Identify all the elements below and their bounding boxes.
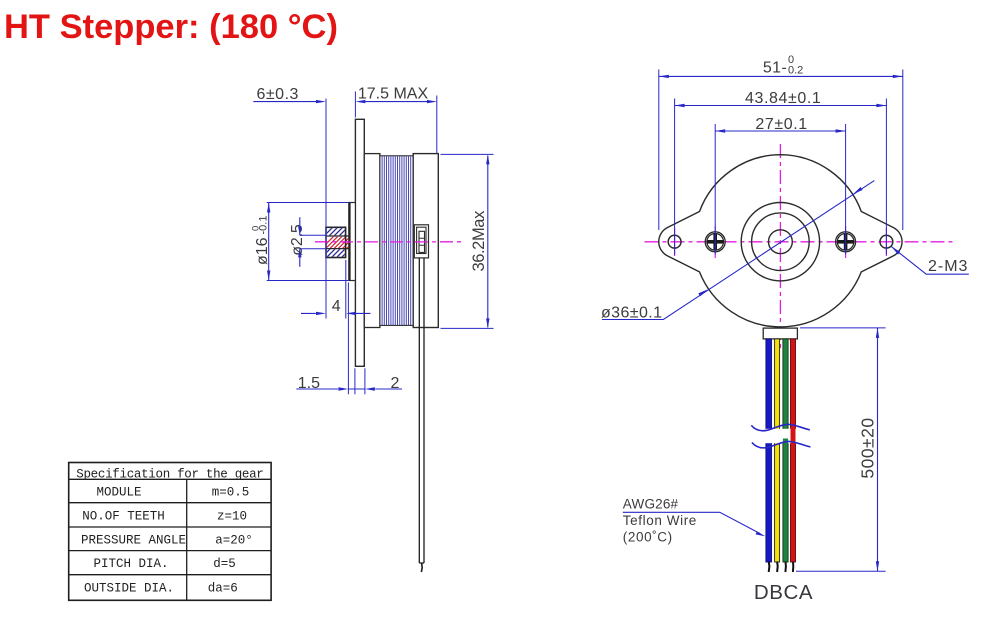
- body left section: [364, 154, 380, 328]
- side lead wire tip: [420, 563, 423, 572]
- connector inner: [417, 227, 426, 253]
- connector pin dividers: [419, 238, 425, 245]
- pilot boss: [349, 203, 355, 281]
- right screw: [836, 232, 856, 252]
- centerline left hole: [674, 228, 676, 256]
- svg-text:z=10: z=10: [217, 510, 247, 524]
- connector outer: [414, 225, 428, 258]
- wire red: [791, 339, 796, 562]
- svg-text:4: 4: [332, 298, 341, 315]
- wire green: [783, 339, 788, 562]
- svg-text:51-: 51-: [763, 59, 787, 76]
- dim 6±0.3 line: [253, 101, 316, 103]
- ext lines ø2.5: [300, 235, 326, 248]
- svg-text:Teflon Wire: Teflon Wire: [623, 513, 697, 528]
- ext lines ø16: [267, 203, 349, 281]
- left ear hole: [668, 235, 681, 248]
- SIDE-VIEW: [251, 86, 494, 573]
- svg-text:HT Stepper: (180 °C): HT Stepper: (180 °C): [4, 8, 338, 46]
- break wave lower: [752, 441, 811, 447]
- side lead wire: [419, 258, 424, 563]
- shaft hatch red: [316, 236, 363, 254]
- break gap white: [748, 429, 812, 443]
- svg-text:AWG26#: AWG26#: [623, 497, 679, 512]
- centerline left screw: [714, 226, 716, 258]
- dim ø16 line: [268, 203, 270, 281]
- svg-text:PITCH DIA.: PITCH DIA.: [93, 557, 168, 571]
- dim 1.5/2 line: [296, 388, 402, 390]
- svg-text:17.5 MAX: 17.5 MAX: [358, 86, 429, 103]
- wire blue: [766, 339, 772, 562]
- label AWG26: [623, 497, 697, 545]
- svg-text:500±20: 500±20: [858, 417, 878, 478]
- svg-text:m=0.5: m=0.5: [212, 486, 250, 500]
- svg-text:43.84±0.1: 43.84±0.1: [745, 90, 821, 107]
- wire green sliver in gap: [783, 439, 788, 444]
- svg-text:-0.1: -0.1: [258, 216, 270, 235]
- gear hatch blue top: [318, 222, 363, 242]
- wire tips black: [768, 562, 771, 573]
- hub circle: [752, 213, 810, 271]
- shaft outline: [326, 236, 349, 249]
- boss circle ø16: [741, 203, 819, 281]
- dim 51 line: [659, 75, 903, 77]
- wire yellow: [775, 339, 780, 562]
- wire red continuation: [791, 427, 796, 445]
- svg-text:PRESSURE ANGLE: PRESSURE ANGLE: [81, 534, 186, 548]
- dim ø36 leader: [602, 181, 874, 320]
- svg-text:NO.OF TEETH: NO.OF TEETH: [82, 510, 165, 524]
- ext lines 51: [659, 70, 903, 231]
- coil section: [380, 156, 413, 326]
- centerline right screw: [845, 226, 847, 258]
- svg-text:6±0.3: 6±0.3: [256, 86, 298, 103]
- wire exit block: [763, 328, 797, 339]
- dim 500 line: [877, 328, 879, 571]
- left screw: [705, 232, 725, 252]
- FRONT-VIEW: [601, 54, 969, 604]
- ext lines 500: [796, 328, 886, 571]
- gear hatch blue bottom: [316, 241, 363, 263]
- svg-text:OUTSIDE DIA.: OUTSIDE DIA.: [84, 582, 174, 596]
- centerline side view overlay: [315, 241, 462, 243]
- connector pin block: [419, 231, 425, 252]
- coil winding lines: [382, 156, 411, 325]
- svg-text:a=20°: a=20°: [215, 534, 253, 548]
- 2-M3 leader: [891, 247, 968, 275]
- break wave upper: [751, 424, 810, 430]
- svg-text:da=6: da=6: [208, 582, 238, 596]
- body right end cap: [413, 154, 438, 328]
- svg-text:27±0.1: 27±0.1: [755, 116, 807, 133]
- ext line flange right bottom: [364, 368, 366, 394]
- svg-text:2-M3: 2-M3: [928, 258, 968, 275]
- dim 17.5 line: [365, 101, 427, 103]
- gear circle: [769, 230, 793, 254]
- ext lines 36.2: [441, 154, 494, 328]
- centerline right hole: [885, 228, 887, 256]
- centerline side view: [315, 241, 462, 243]
- dim ø16 text: [251, 216, 272, 265]
- table frame: [69, 463, 271, 601]
- svg-text:Specification for the gear: Specification for the gear: [76, 467, 263, 481]
- svg-text:0.2: 0.2: [788, 65, 803, 77]
- ext line gear left: [325, 99, 327, 319]
- ext line gear right: [345, 260, 347, 319]
- dim 4 line: [301, 312, 371, 314]
- ext line flange left bottom: [354, 368, 356, 394]
- gear outline: [326, 227, 346, 257]
- boss thick left edge: [348, 203, 350, 281]
- svg-text:36.2Max: 36.2Max: [470, 210, 488, 272]
- motor silhouette: [659, 155, 902, 327]
- ext lines 43.84: [675, 99, 887, 255]
- AWG26 leader: [623, 512, 760, 533]
- right ear hole: [880, 235, 893, 248]
- dim ø2.5 line + arrows: [299, 217, 301, 267]
- ext line boss left bottom: [347, 283, 349, 395]
- dim 27 line: [715, 130, 845, 132]
- ext lines 27: [715, 124, 845, 255]
- dim 43.84 line: [675, 105, 887, 107]
- centerline horizontal: [645, 241, 953, 243]
- svg-text:(200˚C): (200˚C): [623, 530, 673, 545]
- centerline vertical: [779, 144, 781, 351]
- ext line flange left top: [354, 92, 356, 118]
- svg-text:ø2.5: ø2.5: [289, 224, 306, 256]
- ext line body right top: [436, 96, 438, 154]
- svg-text:MODULE: MODULE: [96, 486, 141, 500]
- dim 36.2 line: [487, 156, 489, 328]
- flange plate: [355, 119, 364, 366]
- svg-text:d=5: d=5: [213, 557, 236, 571]
- svg-text:DBCA: DBCA: [754, 581, 813, 604]
- TABLE: [69, 463, 271, 601]
